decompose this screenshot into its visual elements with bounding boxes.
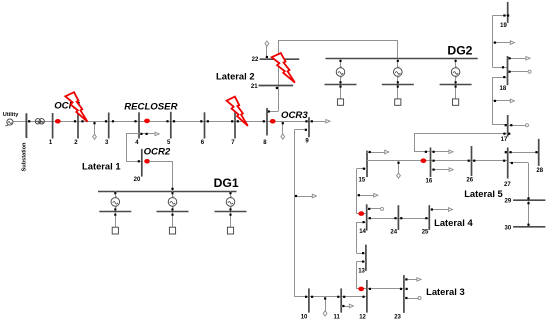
svg-text:29: 29 [505, 199, 512, 205]
svg-text:Utility: Utility [3, 112, 19, 118]
svg-text:23: 23 [394, 315, 401, 321]
svg-text:20: 20 [134, 177, 141, 183]
svg-text:30: 30 [505, 225, 512, 231]
svg-text:Lateral 4: Lateral 4 [434, 217, 473, 228]
svg-text:Substation: Substation [21, 142, 27, 171]
svg-text:27: 27 [504, 182, 511, 188]
svg-text:Lateral 3: Lateral 3 [426, 286, 465, 297]
svg-text:18: 18 [500, 86, 507, 92]
svg-text:12: 12 [359, 315, 366, 321]
svg-text:OCR3: OCR3 [281, 110, 308, 121]
svg-text:13: 13 [358, 268, 365, 274]
svg-text:26: 26 [466, 178, 473, 184]
svg-text:28: 28 [536, 168, 543, 174]
svg-text:22: 22 [252, 57, 259, 63]
svg-text:19: 19 [500, 23, 507, 29]
svg-text:15: 15 [359, 177, 366, 183]
svg-text:16: 16 [426, 179, 433, 185]
svg-text:DG2: DG2 [447, 43, 472, 57]
svg-text:Lateral 1: Lateral 1 [82, 160, 121, 171]
svg-text:DG1: DG1 [214, 176, 239, 190]
svg-text:RECLOSER: RECLOSER [124, 102, 177, 113]
svg-text:OCR2: OCR2 [144, 146, 171, 157]
svg-text:17: 17 [501, 137, 508, 143]
svg-text:21: 21 [251, 84, 258, 90]
svg-text:Lateral 5: Lateral 5 [464, 188, 503, 199]
svg-text:25: 25 [422, 229, 429, 235]
svg-text:10: 10 [301, 315, 308, 321]
svg-text:14: 14 [359, 229, 366, 235]
svg-text:11: 11 [333, 315, 340, 321]
svg-text:24: 24 [390, 229, 397, 235]
svg-text:Lateral 2: Lateral 2 [216, 70, 255, 81]
